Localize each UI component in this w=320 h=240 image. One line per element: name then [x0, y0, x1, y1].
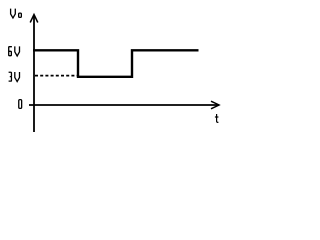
- x-axis arrowhead: [211, 101, 219, 109]
- x-axis line: [29, 104, 219, 106]
- axis label Vo: [11, 9, 22, 18]
- axis label t: [215, 114, 219, 122]
- y-axis line: [33, 15, 35, 132]
- y-axis arrowhead: [30, 15, 38, 23]
- tick label 3V: [9, 72, 20, 82]
- waveform Vo(t): 6V, drop to 3V, back to 6V: [33, 50, 199, 77]
- dashed reference line at 3V: [35, 75, 77, 77]
- origin label 0: [19, 100, 22, 109]
- tick label 6V: [9, 46, 20, 56]
